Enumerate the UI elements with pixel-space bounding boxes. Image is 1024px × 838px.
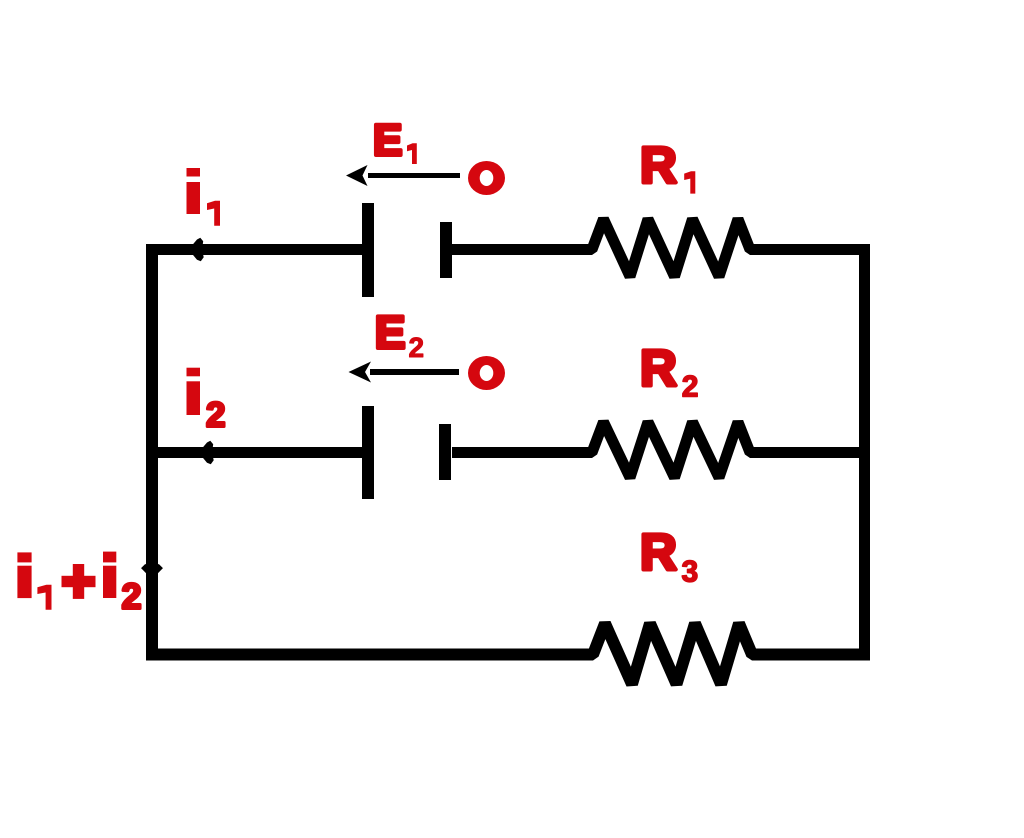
svg-text:2: 2 (409, 332, 425, 363)
svg-text:3: 3 (682, 555, 699, 588)
svg-text:R: R (640, 340, 677, 397)
svg-text:E: E (375, 306, 406, 358)
svg-text:R: R (640, 524, 677, 581)
svg-text:2: 2 (206, 395, 225, 434)
svg-text:R: R (640, 137, 677, 194)
svg-text:E: E (373, 116, 402, 165)
svg-text:2: 2 (122, 576, 142, 617)
svg-text:2: 2 (682, 371, 699, 404)
